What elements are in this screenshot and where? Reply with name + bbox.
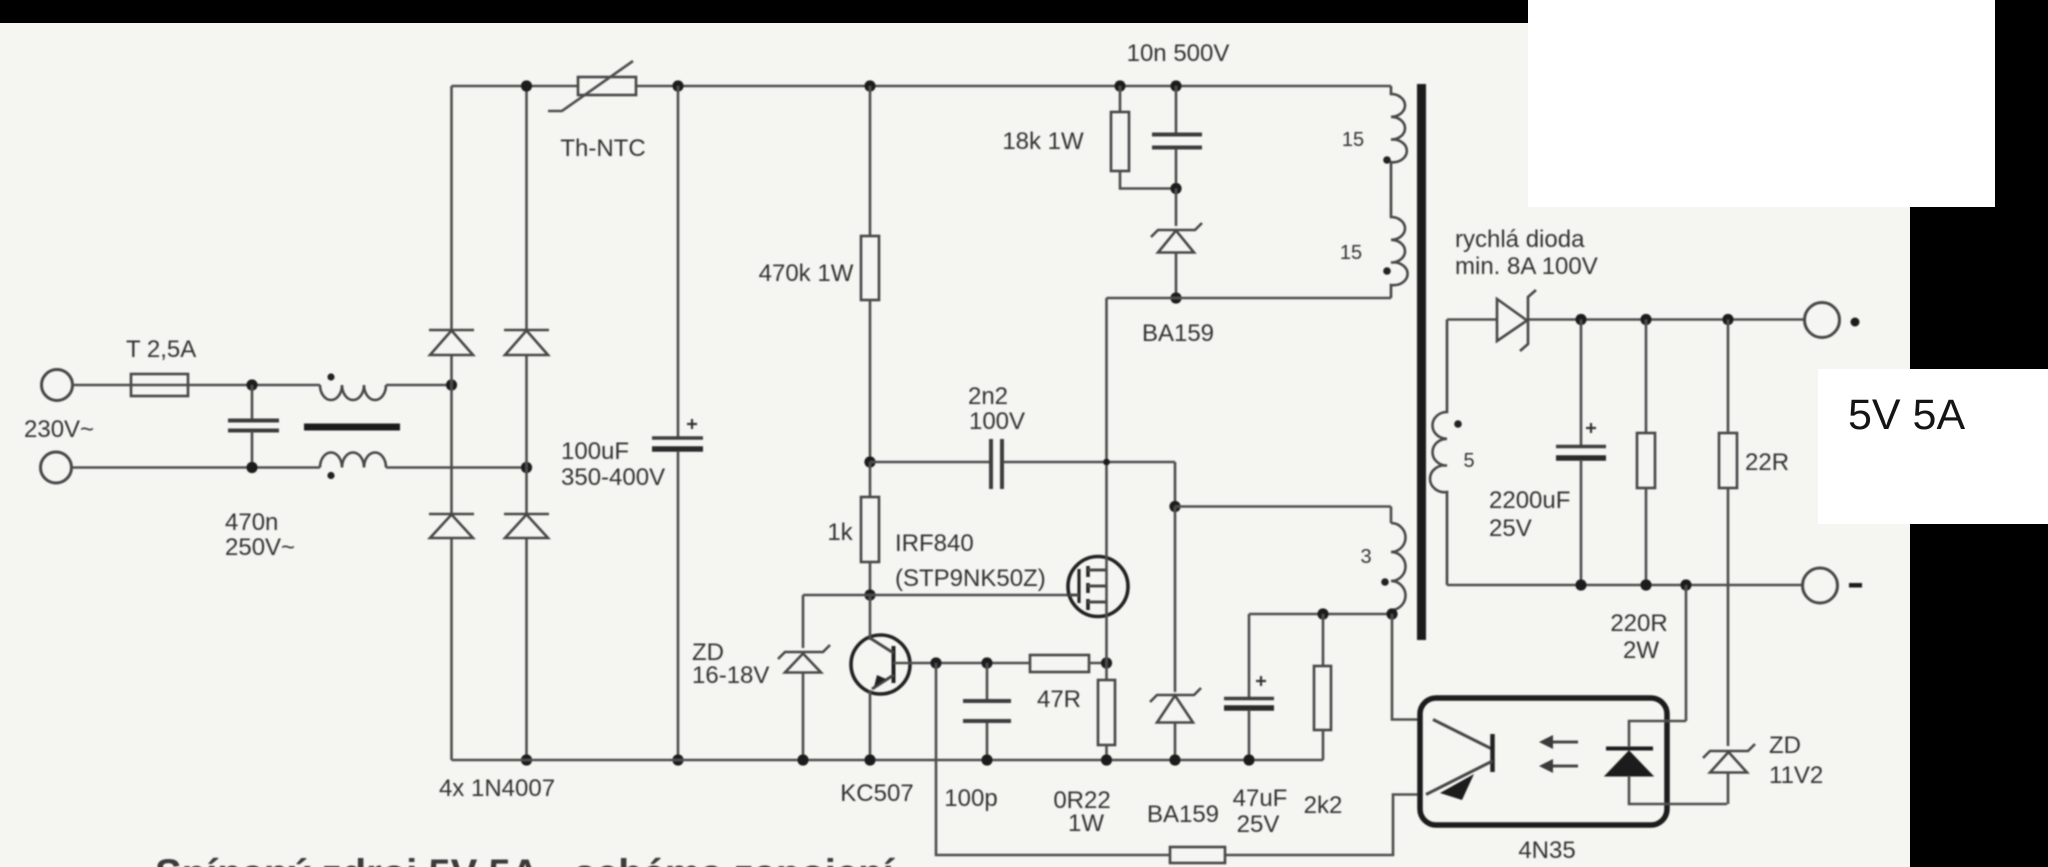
wire KC507 collector [869,595,872,640]
wire 100uF top lead [677,86,680,437]
svg-text:2n2: 2n2 [968,383,1008,410]
svg-text:47uF: 47uF [1233,785,1288,812]
svg-text:11V2: 11V2 [1769,762,1823,789]
wire feedback resistor to KC507 base [936,663,1170,855]
wire KC507 emitter to rail [869,690,872,760]
junction -rail 2200uF [1575,579,1586,590]
node: AC input neutral terminal [41,452,72,483]
junction aux dc / 2k2 [1317,608,1328,619]
label 0R22 1W [1053,787,1110,837]
diode D7 fast rectifier [1497,290,1804,351]
junction -rail LED return [1680,579,1691,590]
resistor R7 feedback [1170,847,1225,863]
transformer core [1417,84,1426,640]
black block right lower [1910,524,2048,867]
svg-text:220R: 220R [1610,610,1667,637]
svg-text:230V~: 230V~ [24,416,94,443]
wire secondary top to output diode [1447,318,1497,321]
4N35 phototransistor [1426,720,1493,801]
svg-text:470k 1W: 470k 1W [759,260,854,287]
junction top rail snubber cap tap [1170,80,1181,91]
capacitor C4 100p [963,663,1011,760]
primary phase dot lower [1383,267,1391,275]
output - terminal [1803,568,1838,603]
svg-text:T 2,5A: T 2,5A [126,336,196,363]
black crop bar top [0,0,1528,23]
svg-text:2200uF: 2200uF [1489,487,1570,514]
capacitor 470n 250V~ [228,385,279,468]
output + mark [1851,318,1860,327]
label 2200uF 25V [1489,487,1570,542]
svg-text:min. 8A 100V: min. 8A 100V [1455,253,1598,280]
capacitor C2 100uF 350-400V [652,419,703,760]
junction 2n2/drain small dot [1103,459,1110,466]
common-mode choke L1 top winding [320,385,386,400]
label IRF840 (STP9NK50Z) [895,530,1046,592]
choke top phase dot [327,373,334,380]
junction +rail 22R [1722,314,1733,325]
thermistor Th-NTC [548,61,636,111]
label ZD 16-18V [692,639,769,689]
diode D2 1N4007 upper-right [504,330,549,355]
diode D4 1N4007 lower-right [504,514,549,538]
black block right mid [1910,207,2048,369]
junction live / 470n top [246,379,257,390]
svg-text:47R: 47R [1037,686,1081,713]
diode D3 1N4007 lower-left [429,514,474,538]
label ZD 11V2 [1769,732,1823,789]
wire aux dc node [1249,613,1391,616]
svg-text:rychlá dioda: rychlá dioda [1455,226,1585,253]
resistor R3 47R [1030,655,1107,672]
zener ZD 11V2 [1703,744,1755,804]
svg-text:4x 1N4007: 4x 1N4007 [439,775,555,802]
label 47uF 25V [1233,785,1288,838]
common-mode choke L1 bottom winding [320,453,386,468]
wire aux node to winding [1175,507,1391,524]
svg-text:15: 15 [1340,242,1362,264]
svg-text:Th-NTC: Th-NTC [560,135,645,162]
wire fuse to choke top [188,384,320,387]
svg-text:2k2: 2k2 [1304,792,1343,819]
junction node 470k/1k/2n2 [864,456,875,467]
junction top rail 100uF tap [672,80,683,91]
primary phase dot upper [1383,156,1391,164]
svg-text:10n 500V: 10n 500V [1127,40,1230,67]
DC+ top rail wire [452,85,1392,88]
svg-text:22R: 22R [1745,449,1789,476]
resistor R8 220R 2W [1637,320,1655,586]
fuse F1 T 2,5A [131,374,188,396]
capacitor C3 2n2 100V feedback [870,439,1175,489]
zener ZD 16-18V [778,645,830,760]
4N35 light arrows [1539,735,1578,773]
wire primary bottom to drain [1107,297,1392,300]
optocoupler U1 4N35 package [1420,698,1667,825]
junction gate node [864,589,875,600]
svg-text:3: 3 [1360,546,1371,568]
wire MOSFET source [1105,616,1108,663]
svg-text:1W: 1W [1068,810,1104,837]
svg-text:BA159: BA159 [1147,801,1219,828]
svg-text:350-400V: 350-400V [561,464,665,491]
wire LED cathode to -rail [1685,585,1688,721]
junction aux top node [1169,501,1180,512]
junction base/100p node [981,657,992,668]
junction bottom rail 47uF [1243,754,1254,765]
label 2n2 100V [968,383,1025,435]
label rychla dioda min. 8A 100V [1455,226,1598,280]
svg-text:(STP9NK50Z): (STP9NK50Z) [895,565,1046,592]
ground bottom rail wire [452,759,1324,762]
diode D1 1N4007 upper-left [429,330,474,355]
wire neutral from terminal through choke bottom [72,466,320,469]
wire live from terminal to fuse [73,384,131,387]
transformer primary winding 15+15 [1391,86,1408,298]
svg-text:18k 1W: 18k 1W [1002,128,1084,155]
svg-text:25V: 25V [1237,811,1280,838]
transistor Q2 KC507 [851,635,910,694]
capacitor C6 47uF 25V [1224,614,1274,760]
svg-text:100p: 100p [944,785,997,812]
junction bottom rail 100uF [672,754,683,765]
bridge left column wire [450,86,453,760]
junction bottom rail KC507 emitter [864,754,875,765]
gate wire to MOSFET [803,594,1069,597]
wire zener drop [802,595,805,648]
resistor R5 18k 1W snubber [1111,86,1176,189]
junction MOSFET source node [1101,657,1112,668]
svg-text:25V: 25V [1489,515,1532,542]
svg-text:15: 15 [1342,129,1364,151]
label 220R 2W [1610,610,1667,664]
junction bridge right AC node [521,462,532,473]
junction top rail 470k tap [864,80,875,91]
svg-text:5: 5 [1463,450,1474,472]
junction bottom rail 100p [981,754,992,765]
svg-text:100V: 100V [969,408,1025,435]
junction bottom rail 0R22 [1101,754,1112,765]
output - mark [1849,583,1862,588]
svg-text:ZD: ZD [1769,732,1801,759]
junction bottom rail bridge right [521,754,532,765]
junction base/feedback node [930,657,941,668]
junction +rail 2200uF [1575,314,1586,325]
resistor R9 22R [1719,320,1737,747]
resistor R1 470k 1W [861,86,879,462]
svg-text:5V 5A: 5V 5A [1848,391,1965,439]
svg-text:470n: 470n [225,509,278,536]
wire MOSFET drain [1105,298,1108,557]
black block right upper [1995,0,2048,207]
white band 5V 5A [1818,369,2048,524]
capacitor C5 10n 500V snubber [1152,86,1202,189]
junction bridge left AC node [446,379,457,390]
wire opto collector [1392,614,1421,720]
junction drain / primary bottom [1170,292,1181,303]
junction top rail at bridge right [521,80,532,91]
junction snubber RC node [1170,183,1181,194]
junction bottom rail zener [797,754,808,765]
svg-text:16-18V: 16-18V [692,662,769,689]
junction +rail 220R [1640,314,1651,325]
svg-text:Spínaný zdroj 5V 5A - schéma z: Spínaný zdroj 5V 5A - schéma zapojení [155,852,896,867]
svg-text:IRF840: IRF840 [895,530,974,557]
wire choke top to bridge left column [386,384,452,387]
svg-text:BA159: BA159 [1142,320,1214,347]
junction neutral / 470n bottom [246,462,257,473]
aux phase dot [1381,578,1389,586]
label 100uF 350-400V [561,438,665,491]
diode D6 BA159 aux [1150,507,1201,761]
bridge right column wire [525,86,528,760]
base wire KC507 to 47R [910,662,1030,665]
svg-text:100uF: 100uF [561,438,629,465]
MOSFET Q1 IRF840 [1068,557,1128,617]
resistor R2 1k [861,462,879,595]
svg-text:250V~: 250V~ [225,534,295,561]
wire opto emitter to feedback resistor [1225,795,1421,856]
label 470n 250V~ [225,509,295,561]
resistor R4 0R22 1W [1098,663,1115,760]
svg-text:2W: 2W [1623,637,1659,664]
output - rail wire [1447,584,1802,587]
junction bottom rail BA159 [1169,754,1180,765]
junction top rail 18k tap [1114,80,1125,91]
svg-text:4N35: 4N35 [1518,837,1575,864]
wire 2n2 to aux node corner [1174,462,1177,507]
node: AC input live terminal [42,370,73,401]
output + terminal [1805,303,1840,338]
wire choke bottom to bridge right column [386,466,527,469]
4N35 LED [1605,721,1727,804]
svg-text:1k: 1k [827,519,853,546]
junction -rail 220R [1640,579,1651,590]
choke bottom phase dot [327,472,334,479]
transformer aux winding 3 turns [1391,523,1406,614]
common-mode choke core [304,424,400,431]
capacitor C7 2200uF 25V [1556,320,1606,586]
transformer secondary winding 5 turns [1430,320,1447,586]
white patch top right [1528,0,1995,207]
diode D5 BA159 clamp [1151,189,1202,299]
resistor R6 2k2 [1314,614,1331,760]
svg-text:KC507: KC507 [840,780,913,807]
secondary phase dot [1454,420,1462,428]
junction aux dc / opto collector [1386,608,1397,619]
